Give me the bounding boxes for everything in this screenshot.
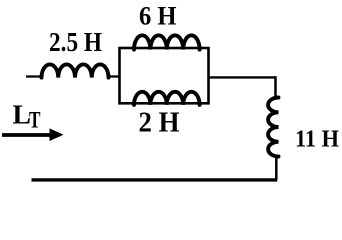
inductor L1 2.5 H coil	[42, 64, 109, 77]
wire: top-left lead into L1	[26, 75, 43, 77]
wire: parallel branch rectangle	[120, 48, 209, 103]
svg-text:2.5 H: 2.5 H	[49, 26, 102, 57]
wire: right vertical lower segment	[275, 156, 278, 180]
wire: parallel box right to top-right corner	[208, 76, 276, 78]
inductor L3 2 H coil (bottom branch)	[134, 92, 200, 105]
inductor L4 11 H coil (vertical)	[268, 98, 278, 157]
inductor L2 6 H coil (top branch)	[134, 35, 200, 49]
svg-text:2 H: 2 H	[139, 107, 180, 138]
wire: bottom return	[32, 178, 278, 181]
svg-text:11 H: 11 H	[295, 127, 339, 153]
svg-text:6 H: 6 H	[139, 1, 177, 31]
arrow for L_T	[2, 133, 50, 137]
wire: right vertical upper segment	[274, 76, 277, 98]
wire: L1 to parallel box left	[108, 75, 121, 77]
svg-text:T: T	[29, 108, 41, 133]
